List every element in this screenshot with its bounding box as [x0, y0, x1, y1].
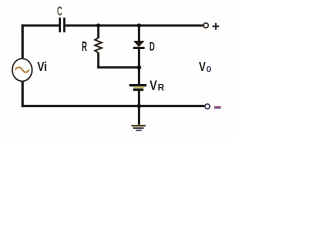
- ac source sine wave: [15, 67, 29, 72]
- battery VR short plate: [133, 88, 143, 91]
- node junction dot connector meets diode branch: [137, 65, 141, 69]
- wire top rail right segment (capacitor to + terminal): [65, 24, 203, 26]
- diode D cathode bar: [133, 47, 145, 49]
- minus sign: [214, 106, 221, 108]
- svg-text:V: V: [150, 78, 157, 93]
- svg-text:o: o: [206, 63, 211, 75]
- wire bottom rail: [21, 105, 205, 107]
- svg-text:Vi: Vi: [37, 60, 47, 74]
- wire below diode to battery: [138, 48, 140, 84]
- svg-text:R: R: [158, 83, 165, 94]
- svg-text:C: C: [57, 4, 63, 19]
- wire below resistor: [97, 53, 99, 69]
- battery VR long plate: [129, 84, 146, 87]
- ac source Vi circle: [12, 59, 32, 82]
- capacitor C right plate: [63, 18, 65, 33]
- wire below battery to bottom rail: [138, 91, 140, 107]
- battery VR artifact tint line: [134, 87, 145, 89]
- resistor R zigzag: [95, 38, 102, 53]
- diode D triangle (anode): [133, 41, 144, 47]
- node junction dot at D branch on top rail: [137, 24, 141, 28]
- node junction dot at R branch on top rail: [96, 24, 100, 28]
- ground line 2: [133, 127, 144, 129]
- node junction dot battery branch meets bottom rail: [137, 104, 141, 108]
- svg-text:D: D: [149, 39, 155, 53]
- svg-text:V: V: [199, 59, 206, 74]
- plus sign: [212, 25, 219, 27]
- terminal + open circle: [204, 23, 209, 28]
- wire left vertical lower (source to bottom rail): [21, 81, 23, 107]
- wire top rail left segment (source to capacitor): [21, 24, 59, 26]
- svg-text:R: R: [82, 39, 87, 54]
- wire ground stem: [138, 106, 140, 125]
- ground line 3: [136, 129, 142, 131]
- wire diode branch from top rail: [138, 24, 140, 41]
- ground line 1: [131, 125, 145, 127]
- wire R branch from top rail: [97, 24, 99, 38]
- terminal - open circle: [205, 104, 210, 109]
- capacitor C left plate: [59, 18, 61, 33]
- wire left vertical upper (top rail to source): [21, 24, 23, 59]
- wire horizontal connector R bottom to D branch: [97, 66, 140, 68]
